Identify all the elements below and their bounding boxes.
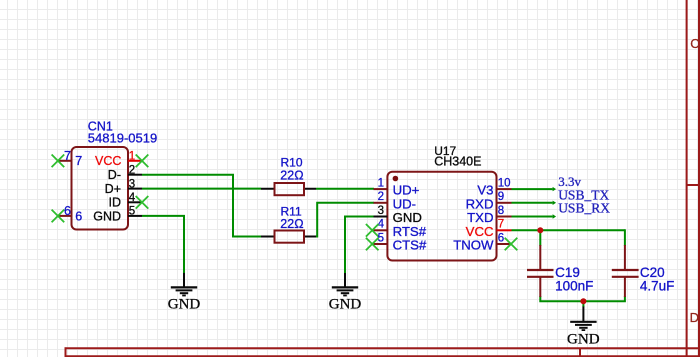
svg-text:GND: GND [393,210,422,225]
wire U17 pin3 GND to ground [345,217,374,275]
U17 pin 2 UD- [374,191,417,211]
connector CN1 body [72,147,129,230]
U17 pin 9 RXD [466,191,512,211]
wire V3 net [512,188,553,190]
wire ground tap below junction [582,301,584,307]
svg-text:6: 6 [498,232,504,244]
svg-text:GND: GND [329,296,362,312]
svg-text:2: 2 [378,191,384,203]
CN1 pin 1 VCC [95,150,142,168]
C20 value label 4.7uF [640,278,675,293]
U17 pin 1 UD+ [374,177,420,197]
wire D- net: CN1 pin2 to R11 [142,175,261,237]
svg-text:5: 5 [129,206,135,218]
CN1 pin 5 GND [93,206,142,224]
CN1 pin 4 ID [109,192,143,210]
frame zone letter D [690,310,699,325]
GND label under capacitors [567,331,600,347]
svg-text:100nF: 100nF [555,278,593,293]
frame bottom sheet zone divider [579,348,581,357]
net label USB_TX [558,187,609,202]
CN1 value label 54819-0519 [88,130,157,145]
resistor R10 body [275,183,305,195]
wire R10 to U17 pin1 UD+ [316,188,374,190]
no-connect X on CN1 pin 6 [52,210,65,223]
svg-text:4: 4 [129,192,136,204]
R11 value label 22 ohm [280,217,303,231]
net port arrow TXD [553,214,557,218]
svg-text:TNOW: TNOW [453,238,494,253]
svg-text:CTS#: CTS# [393,238,427,253]
GND label under CN1 [168,296,201,312]
no-connect X on CN1 pin 1 [136,155,149,168]
IC U17 body [387,172,496,261]
svg-text:3: 3 [129,178,135,190]
frame bottom sheet top border [65,347,700,349]
svg-text:9: 9 [498,191,504,203]
svg-text:4.7uF: 4.7uF [640,278,675,293]
wire caps bottom bus [540,296,625,301]
no-connect X on CN1 pin 7 [52,155,65,168]
U17 pin 3 GND [374,205,422,225]
wire C20 top drop [624,229,626,246]
resistor R10 leads [261,188,316,190]
svg-text:1: 1 [378,177,384,189]
CN1 pin 3 D+ [105,178,142,196]
svg-text:USB_RX: USB_RX [558,201,610,216]
U17 pin 10 V3 [477,177,511,197]
svg-text:1: 1 [129,150,135,162]
svg-text:22Ω: 22Ω [280,217,303,231]
CN1 pin 7 [58,149,82,168]
frame right outer border line [698,0,700,357]
wire C19 top drop [539,230,541,246]
frame zone letter C [690,36,699,51]
capacitor C19 plates [527,270,554,277]
no-connect X on U17 pin 5 [366,238,379,251]
U17 pin1 marker dot [393,176,399,182]
wire TXD net [512,216,553,218]
ground symbol under capacitors [570,307,596,331]
svg-text:ID: ID [109,196,122,210]
C19 value label 100nF [555,278,593,293]
capacitor C19 bottom lead [539,277,541,297]
net label USB_RX [558,201,610,216]
frame right inner border line [686,0,688,357]
net label 3.3v [558,174,581,189]
ground symbol under CN1 [171,273,197,296]
svg-text:3: 3 [378,205,384,217]
svg-text:6: 6 [75,209,82,223]
junction at U17 pin7 / C19 [537,227,543,233]
resistor R11 body [275,231,305,243]
svg-text:D: D [690,310,699,325]
svg-text:D+: D+ [105,182,121,196]
svg-text:7: 7 [498,219,504,231]
frame bottom sheet left border [65,347,67,357]
no-connect X on U17 pin 4 [366,224,379,237]
net port arrow V3 [553,187,557,191]
U17 pin 6 TNOW [453,232,511,252]
svg-text:GND: GND [168,296,201,312]
svg-text:VCC: VCC [95,154,121,168]
CN1 pin 2 D- [108,164,142,182]
svg-text:6: 6 [64,204,71,218]
U17 pin 7 VCC [466,219,512,239]
frame row divider C/D [687,184,700,186]
capacitor C20 bottom lead [624,277,626,297]
svg-text:7: 7 [75,154,82,168]
R10 reference label [281,156,303,170]
wire R11 to U17 pin2 UD- [316,203,374,237]
capacitor C19 top lead [539,245,541,270]
svg-text:C: C [690,36,699,51]
net port arrow RXD [553,201,557,205]
wire VCC net from U17 pin7 to C20 top [512,229,625,231]
svg-text:22Ω: 22Ω [280,169,303,183]
svg-text:TXD: TXD [467,210,493,225]
svg-text:54819-0519: 54819-0519 [88,130,157,145]
no-connect X on CN1 pin 4 [136,196,149,209]
U17 pin 4 RTS# [372,219,427,239]
svg-text:8: 8 [498,205,504,217]
U17 reference label [434,144,456,158]
R10 value label 22 ohm [280,169,303,183]
resistor R11 leads [261,236,316,238]
wire D+ net: CN1 pin3 to R10 [142,188,261,190]
svg-text:10: 10 [498,177,511,189]
svg-text:GND: GND [567,331,600,347]
CN1 pin 6 [58,204,82,223]
R11 reference label [281,204,302,218]
capacitor C20 top lead [624,245,626,270]
C20 reference label [640,265,665,280]
wire CN1 pin5 GND to ground [142,216,184,273]
svg-text:GND: GND [93,209,121,223]
frame bottom sheet inner line [66,355,700,357]
CN1 reference label [88,119,113,133]
ground symbol under U17 GND [332,273,358,296]
U17 value label CH340E [434,155,481,169]
capacitor C20 plates [612,270,639,277]
junction at caps bottom / ground [580,298,586,304]
svg-text:D-: D- [108,168,121,182]
svg-text:CH340E: CH340E [434,155,481,169]
U17 pin 5 CTS# [372,232,427,252]
svg-text:7: 7 [64,149,71,163]
GND label under U17 [329,296,362,312]
no-connect X on U17 pin 6 [505,238,518,251]
svg-text:2: 2 [129,164,135,176]
C19 reference label [555,265,580,280]
U17 pin 8 TXD [467,205,511,225]
wire RXD net [512,202,553,204]
